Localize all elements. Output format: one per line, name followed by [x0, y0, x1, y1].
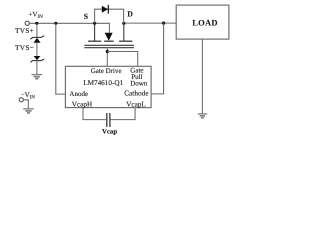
TVS- diode (cathode down) — [34, 56, 41, 60]
MOSFET drain stub — [123, 23, 125, 41]
MOSFET drain plate — [119, 40, 132, 42]
wire anode riser — [56, 23, 66, 94]
svg-text:+VIN: +VIN — [28, 11, 43, 21]
wire gate pull down — [107, 52, 137, 67]
svg-text:LOAD: LOAD — [192, 17, 217, 27]
MOSFET body diode — [105, 33, 113, 41]
diode bypass (S to D) — [102, 6, 108, 13]
node cathode junction — [162, 22, 165, 25]
svg-text:VcapH: VcapH — [72, 101, 92, 109]
LOAD box — [176, 5, 229, 39]
wire bypass diode branch — [95, 9, 124, 23]
MOSFET body plate — [104, 40, 114, 42]
wire TVS chain top — [36, 23, 38, 37]
wire TVS bottom — [36, 61, 38, 75]
svg-text:S: S — [84, 12, 89, 21]
node D — [122, 22, 125, 25]
svg-text:Down: Down — [130, 80, 148, 88]
svg-text:LM74610-Q1: LM74610-Q1 — [83, 79, 123, 87]
capacitor Vcap — [106, 113, 108, 127]
svg-text:TVS+: TVS+ — [15, 26, 34, 35]
ground LOAD — [198, 114, 207, 118]
svg-text:VcapL: VcapL — [126, 101, 146, 109]
svg-text:Gate Drive: Gate Drive — [91, 67, 122, 75]
MOSFET source plate — [88, 40, 101, 42]
svg-text:D: D — [127, 10, 133, 19]
svg-text:Cathode: Cathode — [124, 89, 148, 98]
node S — [93, 22, 96, 25]
svg-text:Anode: Anode — [69, 90, 88, 98]
wire cathode — [151, 23, 164, 94]
wire rail right segment — [124, 22, 176, 24]
IC box U1 — [65, 66, 151, 107]
node gate — [106, 50, 109, 53]
ground -VIN — [23, 109, 34, 113]
wire VcapH — [83, 108, 106, 120]
svg-text:−VIN: −VIN — [21, 91, 36, 100]
wire LOAD to ground — [201, 39, 203, 114]
node anode junction — [54, 22, 57, 25]
wire VcapL — [110, 108, 135, 120]
wire TVS middle — [36, 43, 38, 56]
svg-text:Vcap: Vcap — [102, 129, 117, 136]
wire -VIN to ground — [24, 100, 29, 109]
wire gate drive stem — [106, 48, 108, 67]
MOSFET channel line — [84, 44, 134, 46]
terminal -VIN circle — [19, 98, 23, 102]
MOSFET source stub — [94, 23, 96, 41]
terminal +VIN circle — [25, 21, 29, 25]
wire main rail left segment — [29, 23, 109, 32]
ground TVS — [32, 75, 43, 79]
MOSFET gate line — [84, 47, 134, 49]
node TVS junction — [35, 22, 38, 25]
svg-text:TVS−: TVS− — [15, 43, 34, 52]
TVS+ diode (cathode up) — [34, 38, 41, 43]
